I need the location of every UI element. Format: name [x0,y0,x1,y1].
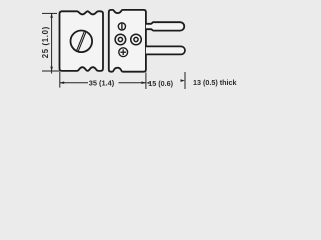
dim 35: right extension line [145,73,147,90]
pin hole right (double circle) [131,34,142,45]
connector rear body (ribbed) [60,11,104,71]
connector front body [109,10,146,72]
svg-text:25 (1.0): 25 (1.0) [41,26,50,58]
svg-text:15 (0.6): 15 (0.6) [148,79,173,88]
svg-text:13 (0.5) thick: 13 (0.5) thick [193,78,237,87]
polarity mark: circle with slot (top) [118,23,125,30]
dim 25: dimension line [51,13,53,73]
dim 35: left extension line [59,72,61,88]
dim 25: bottom extension line [42,70,62,72]
pin hole left (double circle) [115,34,126,45]
bottom pin [146,46,185,54]
dim 25: top extension line [42,12,57,14]
dim 15: right extension line at pin tip [184,72,186,89]
dim 35: dimension line right segment [119,82,146,84]
dim 35: right arrowhead [142,81,146,84]
screw slot [78,32,86,51]
screw head [71,31,93,53]
dim 35: left arrowhead [60,81,64,84]
dim 15: right arrowhead (points right to ext line) [181,79,185,82]
polarity mark: plus circle (bottom) [119,48,128,57]
dim 25: bottom arrowhead [50,67,53,71]
dim 15: left arrowhead (points left to ext line) [146,82,149,84]
dim 25: top arrowhead [50,13,53,17]
dim 35: dimension line left segment [60,82,88,84]
top pin (with neck) [146,22,184,30]
svg-text:35 (1.4): 35 (1.4) [89,78,115,87]
